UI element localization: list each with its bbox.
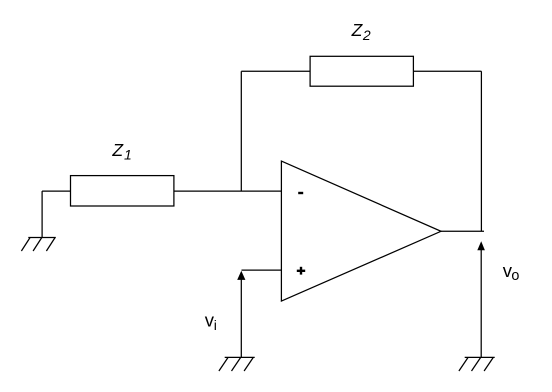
source arrow vo [477, 241, 485, 357]
label vo [503, 260, 520, 284]
wire: op-amp output to output node [441, 230, 484, 232]
svg-text:o: o [511, 268, 519, 284]
node: output junction [480, 230, 482, 232]
ground: vo [459, 357, 495, 371]
svg-text:Z: Z [351, 20, 364, 40]
wire: non-inverting input [242, 269, 282, 271]
svg-text:Z: Z [111, 140, 124, 160]
svg-text:i: i [214, 317, 217, 333]
wire: feedback drop to output node [480, 71, 482, 231]
ground: vi [219, 357, 255, 371]
ground: input side [21, 238, 55, 252]
node: inverting input junction [240, 190, 242, 192]
op-amp non-inverting pin mark + [297, 267, 305, 275]
label Z1 [111, 140, 131, 162]
svg-text:2: 2 [362, 27, 371, 43]
label Z2 [351, 20, 371, 43]
wire: Z1 right terminal to op-amp inverting input [174, 190, 282, 192]
wire: input node down to ground [41, 191, 43, 237]
wire: Z2 right terminal to output drop [413, 70, 481, 72]
impedance Z2 [310, 56, 413, 86]
op-amp U1 [281, 161, 441, 301]
impedance Z1 [71, 176, 174, 206]
wire: top rail left to Z2 [241, 70, 310, 72]
source arrow vi [237, 271, 245, 358]
op-amp inverting pin mark - [298, 192, 303, 194]
wire: feedback riser from inverting input node [240, 71, 242, 191]
label vi [205, 309, 217, 333]
wire: source node to Z1 left terminal [42, 190, 70, 192]
svg-text:1: 1 [124, 146, 132, 162]
